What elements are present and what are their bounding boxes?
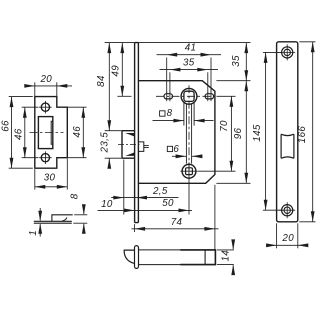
- dimension 66 (strike height): [9, 96, 33, 98]
- left lug slot hole: [164, 94, 173, 99]
- dimension 46 left (hole spacing): [22, 106, 39, 108]
- dimension 96 (case height): [245, 81, 247, 184]
- svg-text:8: 8: [167, 108, 173, 119]
- dimension 23.5 (latch height): [105, 130, 121, 132]
- dimension 41 (lug spacing): [166, 58, 168, 93]
- svg-text:41: 41: [185, 43, 197, 54]
- svg-text:70: 70: [219, 120, 230, 132]
- latch bar separator line: [204, 250, 206, 265]
- svg-text:1: 1: [28, 230, 39, 236]
- dimension 35 right (top to case): [245, 43, 247, 81]
- label square 8: [160, 111, 165, 116]
- spindle hub circle: [181, 88, 197, 104]
- strike side view bent lip: [52, 215, 73, 221]
- svg-text:35: 35: [231, 55, 242, 67]
- dimension 20 (faceplate width): [276, 223, 278, 248]
- WC hub square hole 6mm: [186, 168, 193, 175]
- square hole side lines: [183, 102, 185, 126]
- svg-text:145: 145: [252, 124, 263, 142]
- svg-text:10: 10: [101, 199, 113, 210]
- svg-text:6: 6: [173, 144, 179, 155]
- svg-text:49: 49: [110, 65, 121, 77]
- svg-text:66: 66: [0, 120, 11, 132]
- svg-text:8: 8: [69, 193, 80, 199]
- strike plate bottom screw hole: [41, 154, 49, 162]
- right lug slot hole: [205, 94, 214, 99]
- latch tail bar: [139, 250, 216, 265]
- latch bolt front view: [281, 134, 294, 158]
- top extension line: [105, 42, 251, 44]
- latch head profile: [124, 250, 134, 263]
- faceplate front view outline: [277, 42, 298, 222]
- leader arrows square 8: [153, 120, 184, 122]
- dimension 35 (inner lug spacing): [169, 72, 171, 93]
- hub vertical centerline: [188, 85, 190, 183]
- strike side view bend curve: [62, 217, 67, 221]
- dimension 70 (hub to wc hub): [230, 96, 232, 171]
- svg-text:23,5: 23,5: [99, 132, 110, 154]
- dimension 74 (case depth): [134, 224, 136, 232]
- leader arrows square 6: [172, 155, 186, 157]
- dimension 1 (plate thickness): [39, 208, 41, 221]
- latch assembly faceplate section: [135, 246, 139, 269]
- dimension 49 (top to hub line): [117, 95, 131, 97]
- dimension 20 (strike top width): [34, 82, 36, 96]
- latch bevel bottom: [125, 152, 134, 156]
- case horizontal centerline: [156, 95, 217, 97]
- spindle square hole 8mm: [184, 91, 194, 101]
- svg-text:96: 96: [233, 128, 244, 140]
- dimension 166 (faceplate length): [299, 41, 315, 43]
- dimension 46 right (wide section height): [67, 106, 86, 108]
- faceplate top screw hole: [282, 47, 293, 58]
- dimension 30 (strike wide width): [34, 169, 36, 189]
- dimension 10 and 50 line: [98, 209, 193, 211]
- lock faceplate (edge view): [135, 43, 139, 223]
- svg-text:166: 166: [297, 126, 308, 144]
- svg-text:35: 35: [183, 57, 195, 68]
- 6mm channel lines: [185, 104, 187, 164]
- svg-text:30: 30: [44, 172, 56, 183]
- wc hub extension right: [198, 170, 236, 172]
- strike plate outline (front view): [35, 97, 68, 169]
- dimension 14 (latch bar height): [217, 249, 234, 251]
- dimension 2.5 (faceplate thickness): [111, 197, 178, 199]
- svg-text:50: 50: [162, 198, 174, 209]
- svg-text:20: 20: [39, 74, 52, 85]
- svg-text:74: 74: [171, 217, 183, 228]
- latch bevel top: [125, 133, 134, 137]
- strike plate latch cutout: [38, 117, 52, 149]
- label square 6: [167, 146, 172, 151]
- dimension 8 (lip height): [74, 214, 87, 216]
- svg-text:2,5: 2,5: [152, 186, 168, 197]
- latch face extension line: [123, 160, 125, 215]
- svg-text:84: 84: [96, 75, 107, 87]
- latch tail guide: [138, 142, 143, 152]
- strike plate horizontal centerline: [30, 132, 64, 134]
- hub line extension right: [217, 95, 236, 97]
- dimension 84 (top to latch): [108, 43, 110, 131]
- svg-text:46: 46: [72, 126, 83, 138]
- lock case outline: [138, 81, 215, 184]
- case bottom extension right: [216, 182, 250, 184]
- faceplate bottom screw hole: [282, 205, 293, 216]
- strike side view plate (thickness 1): [34, 221, 72, 223]
- case top extension right: [216, 80, 250, 82]
- strike plate cutout inner lip: [51, 121, 53, 144]
- svg-text:46: 46: [13, 128, 24, 140]
- WC hub circle: [182, 164, 196, 178]
- latch centerline: [118, 144, 140, 146]
- dimension 145 (screw spacing): [263, 51, 282, 53]
- latch bar thick end section: [180, 250, 215, 265]
- svg-text:14: 14: [221, 250, 232, 262]
- strike plate top screw hole: [41, 103, 49, 111]
- latch bolt (protruding): [122, 131, 135, 159]
- svg-text:20: 20: [281, 233, 294, 244]
